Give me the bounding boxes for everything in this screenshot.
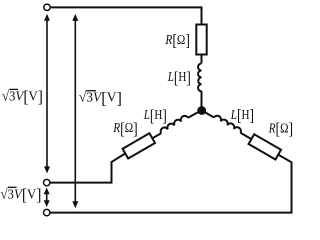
svg-text:L[H]: L[H]	[167, 68, 191, 87]
wire between R1 and L1	[201, 55, 203, 64]
wire L3 to R3	[241, 133, 252, 139]
terminal top-left	[44, 4, 50, 10]
voltage arrow A2 (top wire to bottom wire, double headed)	[72, 14, 78, 208]
node neutral point (junction dot)	[197, 106, 206, 115]
svg-text:√3V[V]: √3V[V]	[1, 185, 42, 204]
resistor R3 (right diagonal)	[249, 134, 281, 159]
svg-text:L[H]: L[H]	[230, 106, 254, 125]
resistor R1 (vertical)	[196, 25, 206, 55]
svg-text:√3V[V]: √3V[V]	[79, 89, 122, 108]
terminal bottom-left	[44, 209, 50, 215]
voltage label sqrt3 V[V] bottom	[1, 185, 42, 204]
svg-text:L[H]: L[H]	[143, 106, 167, 125]
inductor L3 (right diagonal coil)	[214, 114, 242, 132]
wire node to L2	[188, 110, 202, 118]
wire top from terminal to resistor R1	[51, 7, 202, 24]
voltage arrow A1 (top to middle terminal, double headed)	[44, 14, 50, 174]
wire R3 to bottom terminal	[51, 155, 292, 213]
wire R2 to middle terminal	[51, 153, 126, 182]
voltage label sqrt3 V[V] middle	[79, 89, 122, 108]
inductor L1 (vertical coil)	[198, 64, 201, 92]
wire L2 to R2	[152, 133, 161, 138]
svg-text:R[Ω]: R[Ω]	[268, 119, 293, 138]
svg-text:R[Ω]: R[Ω]	[112, 119, 137, 138]
wire node to L3	[202, 110, 215, 117]
inductor L2 (left diagonal coil)	[159, 114, 188, 133]
resistor R2 (left diagonal)	[123, 133, 155, 158]
voltage arrow A3 (middle to bottom terminal, double headed)	[44, 188, 50, 207]
voltage label sqrt3 V[V] left	[2, 87, 43, 106]
terminal middle-left	[44, 179, 50, 185]
svg-text:R[Ω]: R[Ω]	[165, 31, 190, 50]
svg-text:√3V[V]: √3V[V]	[2, 87, 43, 106]
wire between L1 and node	[201, 91, 203, 110]
